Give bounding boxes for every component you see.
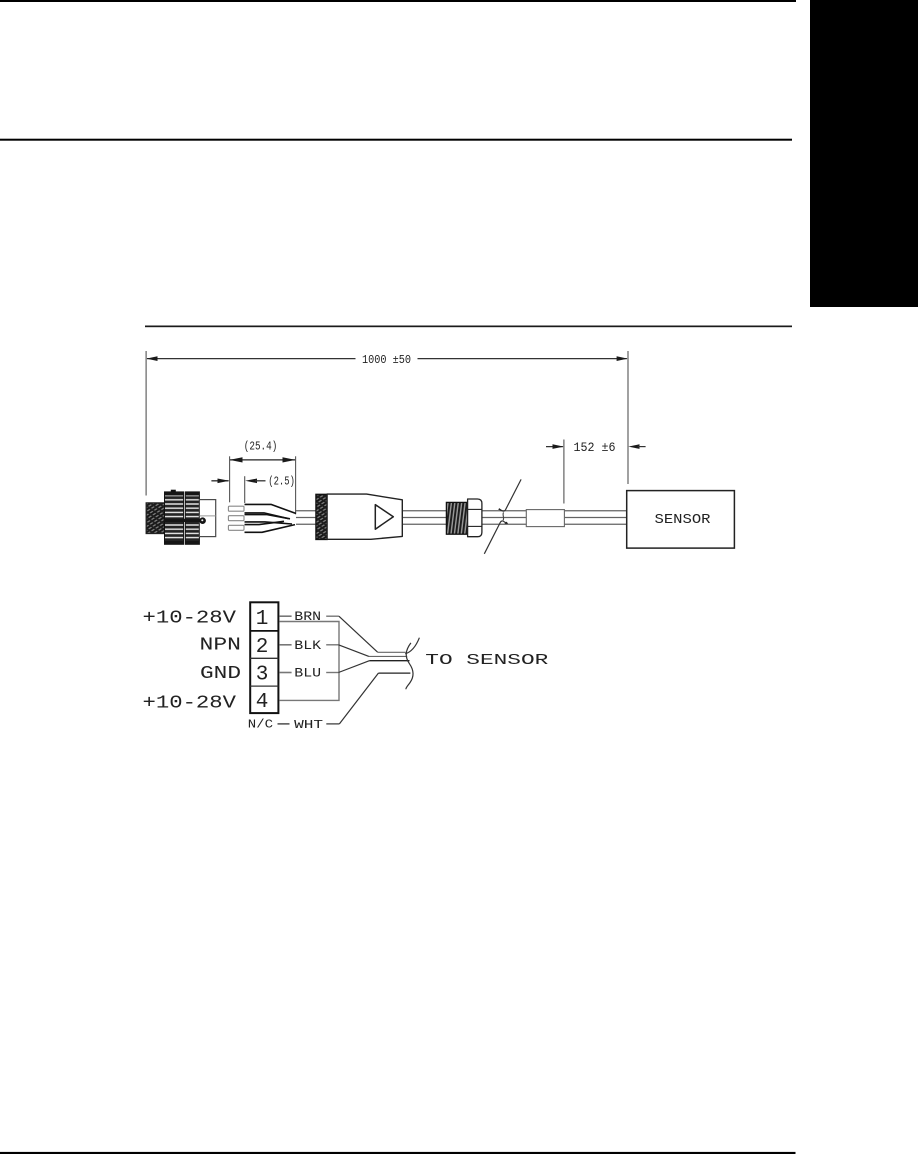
svg-text:BLU: BLU — [294, 666, 321, 681]
section rule — [145, 326, 792, 328]
dimension 152±6 extension line — [563, 440, 565, 504]
connector center pin line — [164, 519, 201, 522]
cable outline lines — [296, 511, 627, 524]
wire tip 1 — [228, 506, 244, 511]
wire tip 2 — [228, 516, 244, 521]
bottom rule — [0, 1152, 796, 1154]
insulated wire 2 — [245, 515, 291, 519]
cable break symbol — [484, 521, 507, 554]
dimension (2.5) right arrow — [245, 479, 257, 484]
gland threaded section — [446, 502, 467, 534]
insulated wire 1 — [245, 504, 297, 513]
cable bundle lines — [378, 651, 406, 653]
gland hex nut — [468, 499, 482, 537]
dimension 152±6 right arrow — [628, 444, 639, 449]
svg-text:N/C: N/C — [248, 718, 273, 731]
dimension (25.4) line — [230, 459, 295, 461]
svg-text:BLK: BLK — [294, 638, 321, 653]
svg-text:1: 1 — [256, 608, 269, 631]
connector pin dot — [199, 517, 206, 524]
bundle break arc upper — [405, 638, 419, 654]
svg-text:152 ±6: 152 ±6 — [574, 440, 616, 455]
connector threaded tip — [146, 503, 164, 534]
wire WHT — [278, 723, 290, 725]
black side tab — [810, 0, 918, 307]
insulated wire 3 — [245, 521, 285, 524]
wire BLK — [280, 644, 292, 646]
terminal block outline — [250, 602, 278, 713]
svg-text:4: 4 — [256, 691, 269, 714]
dimension 1000±50 extension line right — [627, 351, 629, 484]
wire tip 3 — [228, 525, 244, 530]
dimension 152±6 left arrow — [546, 446, 563, 448]
svg-text:SENSOR: SENSOR — [655, 513, 711, 528]
dimension (2.5) extension line — [244, 476, 246, 503]
terminal dividers — [250, 630, 278, 632]
svg-text:NPN: NPN — [200, 635, 242, 655]
ferrule — [526, 510, 564, 527]
svg-text:WHT: WHT — [294, 718, 323, 732]
connector knurled ring 2 — [185, 492, 199, 544]
dimension 1000±50 arrowheads — [146, 356, 157, 361]
wire BRN — [280, 615, 292, 617]
molded body — [327, 494, 402, 539]
top rule — [0, 0, 796, 2]
header rule — [0, 139, 792, 141]
bundle break arc S — [406, 643, 413, 689]
connector notch — [171, 490, 176, 492]
dimension (2.5) left arrow — [211, 480, 228, 482]
svg-text:GND: GND — [200, 664, 241, 684]
dimension 1000±50 line — [147, 358, 356, 360]
pin1-pin4 jumper — [279, 622, 339, 701]
svg-text:+10-28V: +10-28V — [143, 608, 237, 628]
body triangle mark — [375, 505, 393, 530]
svg-text:+10-28V: +10-28V — [143, 694, 237, 714]
crimp band — [316, 494, 327, 539]
sensor box — [627, 491, 735, 548]
svg-text:3: 3 — [256, 663, 269, 686]
wire BLU — [280, 672, 292, 674]
connector ring caps — [165, 492, 184, 496]
svg-text:TO SENSOR: TO SENSOR — [425, 652, 548, 669]
dimension 1000±50 extension line left — [145, 351, 147, 496]
svg-text:2: 2 — [256, 636, 269, 659]
connector backshell — [199, 500, 215, 537]
svg-text:1000 ±50: 1000 ±50 — [362, 353, 411, 367]
svg-text:(25.4): (25.4) — [244, 439, 277, 453]
dimension (25.4) extension lines — [229, 456, 231, 502]
connector knurled ring 1 — [165, 492, 184, 544]
svg-text:(2.5): (2.5) — [268, 476, 295, 489]
